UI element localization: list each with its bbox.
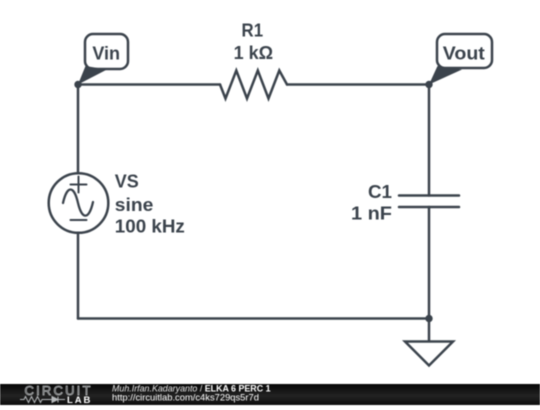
wire right vertical top (Vout node to capacitor) <box>428 85 431 196</box>
svg-text:sine: sine <box>115 195 154 215</box>
wire top left (Vin node to resistor) <box>78 83 220 86</box>
svg-text:C1: C1 <box>368 182 392 202</box>
capacitor C1 bottom plate <box>399 206 459 209</box>
capacitor C1 top plate <box>399 194 459 197</box>
svg-text:Vin: Vin <box>92 44 120 64</box>
voltage source sine symbol <box>63 190 93 216</box>
voltage source plus sign <box>71 184 87 186</box>
node Vin junction dot <box>74 81 81 88</box>
voltage source minus sign <box>71 219 87 221</box>
svg-text:LAB: LAB <box>67 395 92 405</box>
voltage source VS circle <box>49 173 109 233</box>
logo resistor-diode glyph <box>20 397 65 403</box>
svg-text:Vout: Vout <box>443 44 485 64</box>
wire ground stub <box>428 319 431 342</box>
svg-text:R1: R1 <box>242 21 264 41</box>
wire left vertical bottom (source to bottom rail) <box>77 233 80 319</box>
wire bottom rail <box>78 317 429 320</box>
svg-text:1 kΩ: 1 kΩ <box>234 43 273 63</box>
flag Vout <box>429 34 492 85</box>
svg-text:1 nF: 1 nF <box>351 204 392 224</box>
wire left vertical top (Vin node to source) <box>77 85 80 174</box>
svg-text:100 kHz: 100 kHz <box>115 217 185 237</box>
svg-text:http://circuitlab.com/c4ks729q: http://circuitlab.com/c4ks729qs5r7d <box>112 392 259 403</box>
wire top right (resistor to Vout node) <box>287 83 429 86</box>
node Vout junction dot <box>425 81 432 88</box>
resistor R1 <box>220 71 287 99</box>
node ground junction dot <box>425 315 432 322</box>
svg-text:VS: VS <box>115 172 139 192</box>
flag Vin <box>78 34 128 85</box>
ground symbol <box>405 342 453 366</box>
wire right vertical bottom (capacitor to bottom rail) <box>428 207 431 319</box>
